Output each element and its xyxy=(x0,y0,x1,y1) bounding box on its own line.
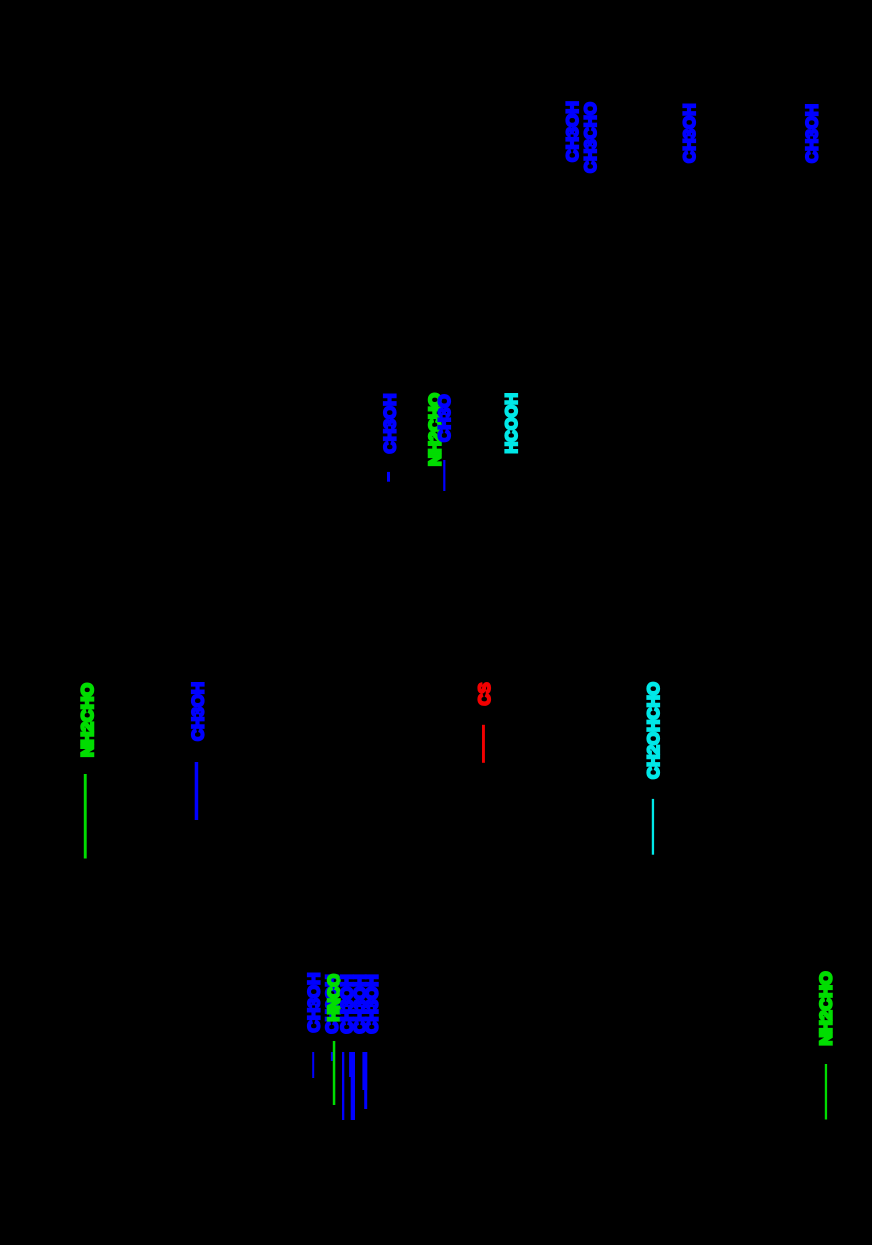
tick CS xyxy=(482,725,485,763)
tick NH2CHO left xyxy=(84,774,87,859)
svg-text:HCOOH: HCOOH xyxy=(502,393,521,454)
svg-text:CH3O: CH3O xyxy=(435,395,454,443)
svg-text:CH3OH: CH3OH xyxy=(362,975,381,1034)
svg-text:CH3OH: CH3OH xyxy=(305,973,324,1033)
tick CH3OH bottom-3 xyxy=(342,1052,344,1120)
svg-text:CH3OH: CH3OH xyxy=(381,394,400,454)
svg-text:CH3OH: CH3OH xyxy=(189,682,208,741)
tick NH2CHO/CH3O mid xyxy=(443,460,445,491)
tick CH2OHCHO xyxy=(652,799,654,855)
svg-text:CH2OHCHO: CH2OHCHO xyxy=(644,682,663,779)
svg-text:CH3OH: CH3OH xyxy=(680,104,699,164)
svg-text:NH2CHO: NH2CHO xyxy=(816,972,835,1046)
tick NH2CHO bottom-right xyxy=(825,1064,827,1120)
svg-text:CH3OH: CH3OH xyxy=(803,104,822,163)
tick CH3OH bottom-4 (double) xyxy=(349,1052,355,1077)
tick HNCO (green) xyxy=(333,1041,336,1105)
svg-text:NH2CHO: NH2CHO xyxy=(78,683,97,757)
tick CH3OH mid xyxy=(387,472,390,482)
tick CH3OH left xyxy=(195,762,199,820)
tick CH3OH bottom-1 xyxy=(312,1052,314,1078)
svg-text:CS: CS xyxy=(475,683,494,706)
svg-text:CH3CHO: CH3CHO xyxy=(581,102,600,173)
tick blue small bottom xyxy=(331,1052,333,1061)
svg-text:CH3OH: CH3OH xyxy=(563,101,582,162)
tick CH3OH bottom-5 (double) xyxy=(362,1052,367,1090)
